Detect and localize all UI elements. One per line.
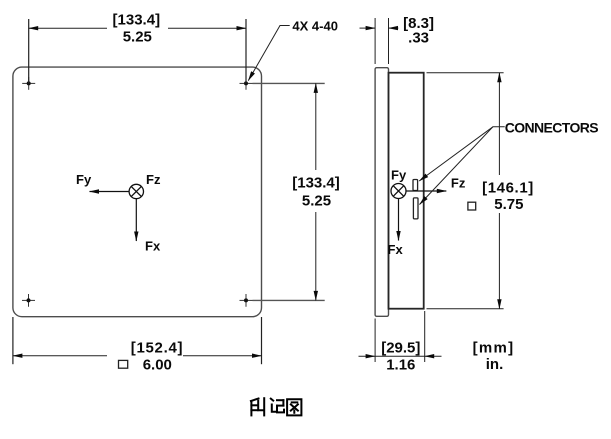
svg-text:Fx: Fx bbox=[145, 239, 161, 254]
svg-text:CONNECTORS: CONNECTORS bbox=[505, 120, 599, 136]
svg-text:[133.4]: [133.4] bbox=[292, 174, 340, 191]
svg-text:[mm]: [mm] bbox=[473, 340, 515, 357]
svg-text:5.25: 5.25 bbox=[123, 29, 152, 46]
svg-text:Fz: Fz bbox=[451, 175, 466, 190]
svg-text:5.25: 5.25 bbox=[302, 193, 331, 210]
svg-text:4X 4-40: 4X 4-40 bbox=[292, 18, 338, 33]
svg-text:Fz: Fz bbox=[146, 172, 161, 187]
svg-text:in.: in. bbox=[486, 356, 504, 373]
svg-text:[146.1]: [146.1] bbox=[482, 180, 534, 197]
svg-text:1.16: 1.16 bbox=[386, 357, 415, 374]
svg-text:Fx: Fx bbox=[388, 242, 404, 257]
svg-text:Fy: Fy bbox=[76, 172, 92, 187]
svg-text:Fy: Fy bbox=[391, 167, 407, 182]
svg-text:[152.4]: [152.4] bbox=[131, 339, 183, 356]
svg-text:5.75: 5.75 bbox=[494, 196, 523, 213]
svg-text:[29.5]: [29.5] bbox=[381, 340, 420, 357]
svg-text:.33: .33 bbox=[408, 30, 429, 47]
svg-text:[133.4]: [133.4] bbox=[113, 12, 161, 29]
svg-text:6.00: 6.00 bbox=[143, 357, 172, 374]
